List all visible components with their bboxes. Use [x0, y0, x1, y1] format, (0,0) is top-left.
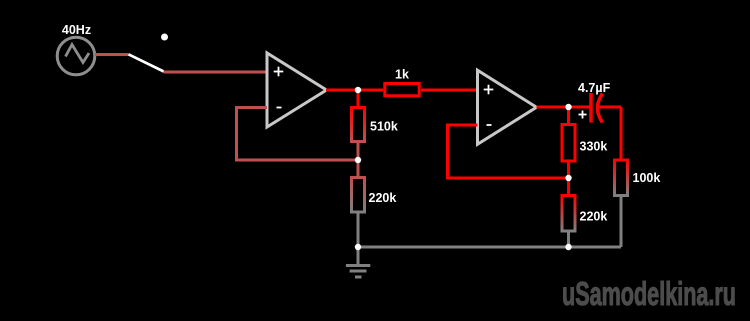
svg-text:220k: 220k: [580, 210, 608, 224]
svg-text:4.7µF: 4.7µF: [578, 81, 611, 95]
svg-text:uSamodelkina.ru: uSamodelkina.ru: [562, 275, 736, 312]
svg-text:1k: 1k: [395, 68, 409, 82]
svg-text:100k: 100k: [633, 171, 661, 185]
svg-text:220k: 220k: [369, 191, 397, 205]
svg-text:40Hz: 40Hz: [62, 23, 91, 37]
svg-text:510k: 510k: [370, 120, 398, 134]
svg-text:330k: 330k: [580, 140, 608, 154]
